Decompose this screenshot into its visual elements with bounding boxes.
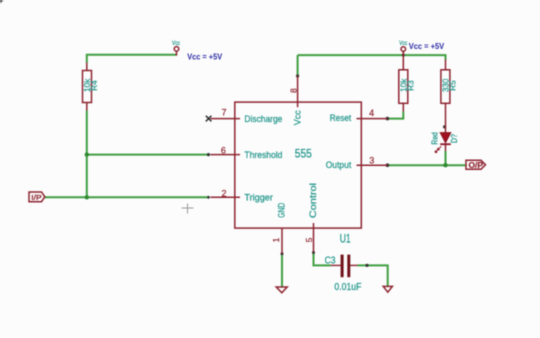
svg-text:U1: U1 — [340, 233, 351, 245]
svg-text:R5: R5 — [447, 80, 457, 91]
svg-text:Vcc = +5V: Vcc = +5V — [187, 53, 223, 62]
svg-text:Control: Control — [308, 183, 319, 218]
svg-text:0.01uF: 0.01uF — [334, 282, 361, 293]
svg-text:Vcc: Vcc — [399, 41, 407, 47]
svg-text:R4: R4 — [89, 80, 99, 91]
svg-text:I/P: I/P — [31, 193, 42, 202]
svg-text:Vcc: Vcc — [172, 41, 180, 47]
svg-text:GND: GND — [277, 203, 288, 218]
svg-text:1: 1 — [271, 237, 281, 242]
svg-text:O/P: O/P — [469, 160, 484, 170]
svg-text:555: 555 — [295, 146, 312, 160]
svg-text:7: 7 — [221, 107, 226, 117]
svg-text:D?: D? — [449, 134, 459, 143]
svg-text:3: 3 — [369, 155, 374, 165]
svg-text:5: 5 — [304, 237, 314, 242]
svg-text:C3: C3 — [325, 256, 336, 267]
svg-text:Discharge: Discharge — [244, 114, 282, 125]
svg-text:Trigger: Trigger — [244, 193, 273, 204]
svg-text:Vcc: Vcc — [293, 110, 304, 125]
svg-text:Output: Output — [326, 160, 352, 171]
svg-text:Red: Red — [430, 132, 440, 145]
svg-text:Reset: Reset — [330, 113, 352, 124]
svg-text:8: 8 — [289, 88, 299, 93]
svg-text:4: 4 — [369, 108, 374, 118]
svg-text:2: 2 — [221, 188, 226, 198]
svg-text:R3: R3 — [405, 80, 415, 91]
svg-text:6: 6 — [221, 146, 226, 156]
svg-text:Threshold: Threshold — [244, 150, 282, 161]
svg-text:Vcc = +5V: Vcc = +5V — [409, 42, 445, 51]
